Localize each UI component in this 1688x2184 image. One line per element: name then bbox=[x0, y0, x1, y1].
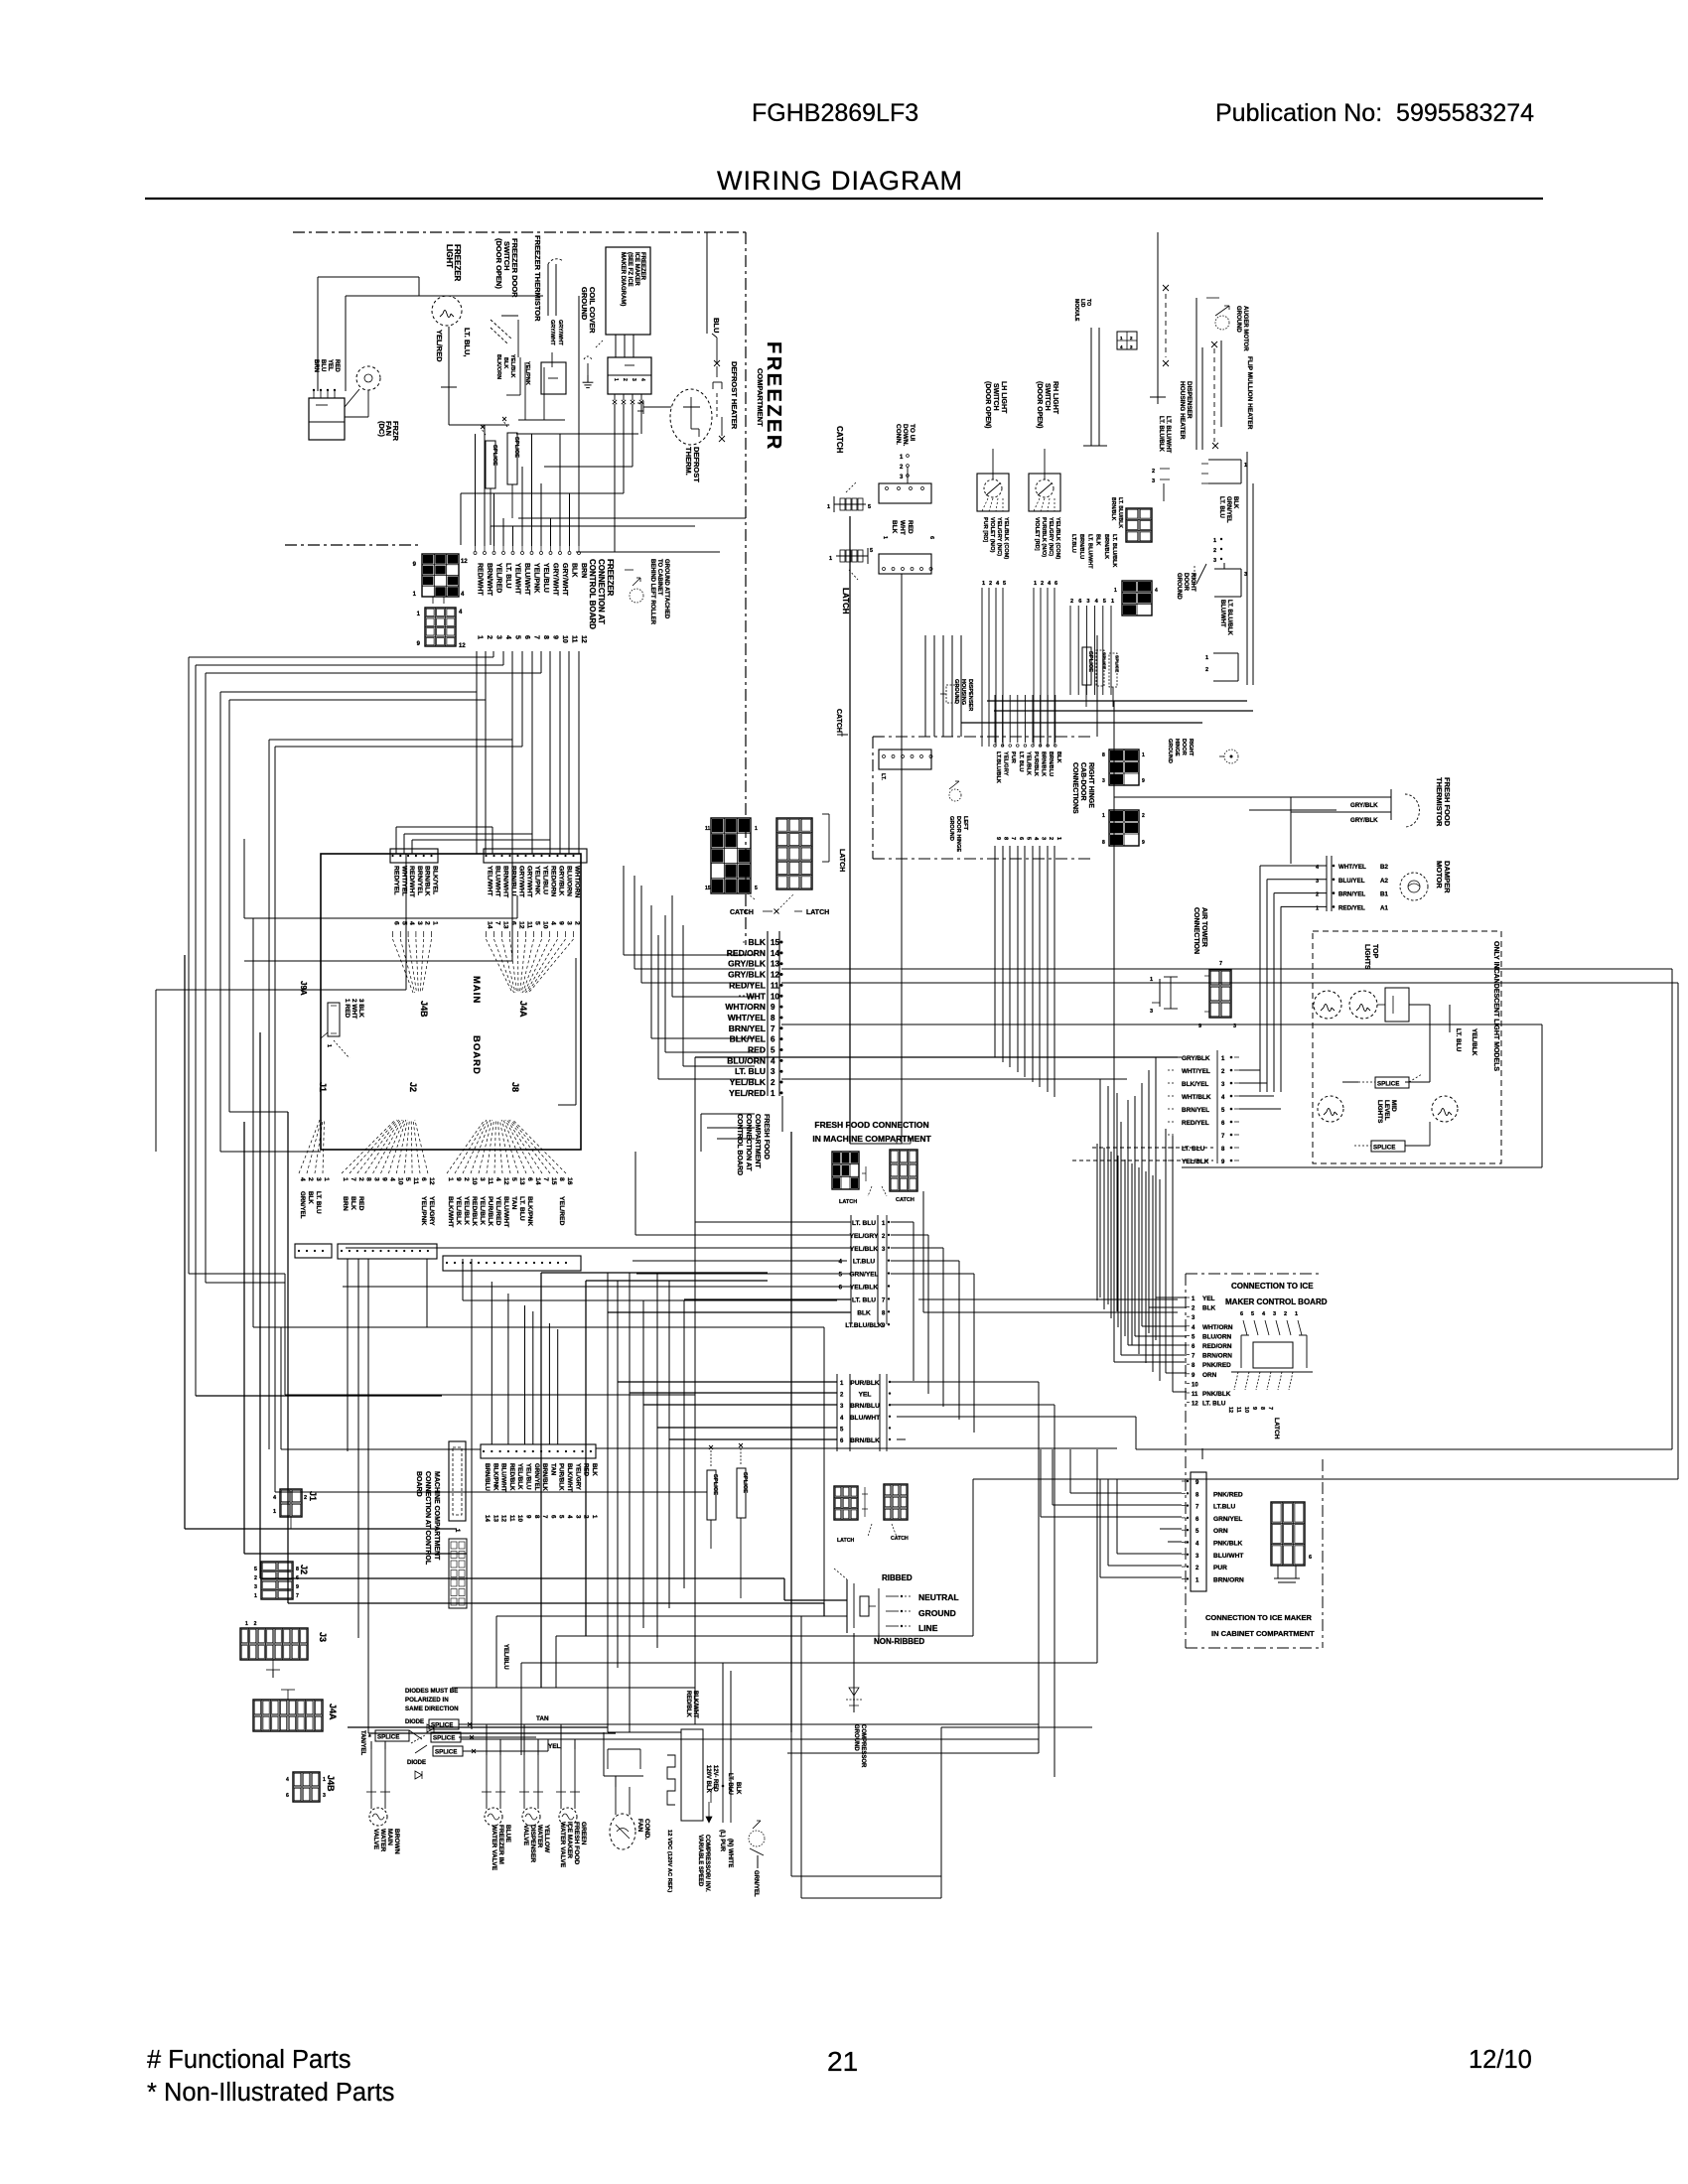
blue freezer im water valve coil bbox=[485, 1808, 502, 1826]
cabinet ground symbol bbox=[630, 589, 643, 603]
svg-text:DISPENSER: DISPENSER bbox=[1186, 381, 1193, 419]
svg-text:RIGHT: RIGHT bbox=[1188, 739, 1194, 756]
svg-text:6: 6 bbox=[1240, 1311, 1243, 1317]
svg-text:2: 2 bbox=[254, 1575, 257, 1581]
svg-text:BRN/BLU: BRN/BLU bbox=[1078, 534, 1084, 559]
svg-text:CONNECTIONS: CONNECTIONS bbox=[1071, 762, 1078, 814]
svg-text:13: 13 bbox=[502, 921, 509, 929]
wire trunk G bbox=[220, 1151, 321, 1153]
svg-text:TAN: TAN bbox=[510, 1196, 517, 1210]
svg-text:3: 3 bbox=[323, 1793, 326, 1799]
top light connector bbox=[1385, 988, 1409, 1022]
svg-text:J4A: J4A bbox=[328, 1704, 338, 1720]
svg-text:BLU/WHT: BLU/WHT bbox=[502, 1196, 509, 1228]
svg-text:YEL/BLK: YEL/BLK bbox=[479, 1196, 486, 1225]
svg-text:5: 5 bbox=[254, 1567, 257, 1572]
svg-text:COND.: COND. bbox=[643, 1819, 650, 1840]
svg-text:YEL/BLK: YEL/BLK bbox=[509, 354, 515, 378]
svg-text:RED/ORN: RED/ORN bbox=[727, 948, 766, 958]
svg-text:GRN/YEL: GRN/YEL bbox=[1225, 496, 1231, 523]
dispenser ground symbol bbox=[946, 685, 956, 703]
svg-text:YEL/BLK: YEL/BLK bbox=[850, 1246, 878, 1253]
svg-text:NEUTRAL: NEUTRAL bbox=[918, 1592, 959, 1602]
damper motor symbol bbox=[1400, 873, 1428, 900]
svg-text:J2: J2 bbox=[299, 1565, 309, 1574]
wire long mid h4 bbox=[442, 1394, 695, 1396]
ff low pins stubs bbox=[701, 1113, 755, 1115]
svg-text:BLK/WHT: BLK/WHT bbox=[447, 1196, 454, 1228]
cab-door box border bbox=[873, 736, 1093, 738]
svg-text:GROUND: GROUND bbox=[918, 1608, 956, 1618]
svg-text:1: 1 bbox=[254, 1593, 257, 1599]
svg-text:MID: MID bbox=[1390, 1100, 1397, 1112]
svg-text:120V BLK: 120V BLK bbox=[705, 1765, 711, 1794]
wire mid extra v bbox=[540, 1273, 542, 1688]
wire left h 1247 bbox=[196, 1395, 442, 1397]
ice maker cb feed wires bbox=[1156, 1297, 1187, 1298]
freezer compartment dash-dot border right bbox=[745, 232, 747, 945]
svg-text:10: 10 bbox=[561, 635, 568, 643]
svg-text:BRN/YEL: BRN/YEL bbox=[729, 1024, 766, 1033]
svg-text:11: 11 bbox=[508, 1515, 515, 1522]
svg-text:MAIN: MAIN bbox=[386, 1829, 393, 1845]
ice maker cabinet connector strip bbox=[1191, 1472, 1206, 1591]
svg-text:LATCH: LATCH bbox=[839, 1199, 857, 1205]
compressor bottom wires bbox=[791, 1875, 941, 1877]
svg-text:14: 14 bbox=[534, 1177, 541, 1185]
svg-text:BLK/YEL: BLK/YEL bbox=[432, 866, 439, 894]
svg-text:J4A: J4A bbox=[518, 1001, 528, 1018]
svg-text:LT. BLU: LT. BLU bbox=[1455, 1028, 1462, 1052]
ff connector left stub wires bbox=[624, 954, 755, 956]
wire bottom distribution bbox=[348, 1726, 608, 1728]
freezer thermistor symbol bbox=[547, 264, 549, 316]
valve feed bus bbox=[467, 1723, 1039, 1725]
svg-text:J3: J3 bbox=[318, 1632, 328, 1642]
svg-text:1: 1 bbox=[827, 504, 830, 510]
svg-text:LT. BLU: LT. BLU bbox=[727, 1773, 733, 1795]
svg-text:MAKER DIAGRAM): MAKER DIAGRAM) bbox=[620, 252, 626, 306]
svg-text:9: 9 bbox=[381, 1177, 388, 1181]
svg-text:BLU/ORN: BLU/ORN bbox=[566, 866, 573, 896]
svg-text:3: 3 bbox=[1273, 1311, 1276, 1317]
svg-text:1: 1 bbox=[829, 556, 832, 562]
freezer door switch symbol bbox=[491, 320, 512, 340]
svg-text:1: 1 bbox=[1192, 1297, 1196, 1302]
svg-text:12: 12 bbox=[1192, 1402, 1198, 1408]
svg-text:BLK: BLK bbox=[1202, 1305, 1216, 1312]
svg-text:LT. BLU: LT. BLU bbox=[504, 563, 511, 589]
wire v mid2 bbox=[922, 1191, 924, 1312]
svg-text:FREEZER: FREEZER bbox=[606, 559, 615, 597]
ff 9-wire block A bbox=[850, 1215, 852, 1324]
svg-text:RED/YEL: RED/YEL bbox=[393, 866, 400, 894]
svg-text:5: 5 bbox=[1003, 581, 1006, 587]
ice maker cb connector drawing bbox=[1253, 1342, 1293, 1368]
damper feed wires bbox=[1260, 865, 1327, 867]
ice maker connector bbox=[608, 357, 651, 394]
svg-text:SAME DIRECTION: SAME DIRECTION bbox=[405, 1706, 459, 1712]
svg-text:BRN/YEL: BRN/YEL bbox=[416, 866, 423, 895]
wire x788 stub bbox=[781, 1096, 783, 1132]
relay box bbox=[541, 362, 566, 394]
svg-text:WHT: WHT bbox=[899, 520, 906, 535]
switch fan dashes bbox=[982, 498, 988, 511]
svg-text:DOWN.: DOWN. bbox=[902, 424, 909, 447]
svg-text:LATCH: LATCH bbox=[841, 588, 850, 614]
bus wire 8 bbox=[244, 917, 517, 919]
svg-text:WHT/YEL: WHT/YEL bbox=[728, 1013, 766, 1023]
wire down right bundle bbox=[1096, 1144, 1098, 1300]
green fresh food ice maker valve coil bbox=[559, 1808, 577, 1826]
capacitor zigzag bbox=[667, 1755, 675, 1805]
splice in light box 2 bbox=[1371, 1141, 1405, 1152]
svg-text:1: 1 bbox=[1295, 1311, 1298, 1317]
svg-text:1: 1 bbox=[417, 612, 421, 617]
J1 grid bottom bbox=[280, 1489, 302, 1517]
svg-text:6: 6 bbox=[510, 921, 517, 925]
svg-text:BLK: BLK bbox=[891, 520, 898, 534]
main board outline bbox=[321, 854, 581, 1150]
wire mid extra h bbox=[541, 1272, 768, 1274]
svg-text:LATCH: LATCH bbox=[806, 909, 829, 916]
J4B grid bottom bbox=[293, 1772, 320, 1802]
svg-text:3: 3 bbox=[1213, 558, 1216, 564]
only incandescent light models dashed box bbox=[1313, 931, 1501, 1163]
fresh food connector rails bbox=[767, 931, 769, 1096]
svg-text:1: 1 bbox=[1221, 1056, 1225, 1062]
svg-text:(N) WHITE: (N) WHITE bbox=[727, 1839, 733, 1867]
svg-text:PNK/BLK: PNK/BLK bbox=[1202, 1391, 1231, 1398]
freezer fan motor bbox=[356, 366, 380, 390]
svg-text:BLK: BLK bbox=[350, 1196, 356, 1210]
svg-text:LATCH: LATCH bbox=[1273, 1418, 1280, 1439]
defrost therm lead connector bbox=[643, 406, 671, 408]
svg-text:GRY/WHT: GRY/WHT bbox=[526, 866, 533, 898]
svg-text:4: 4 bbox=[566, 1515, 573, 1519]
svg-text:PUR/BLK: PUR/BLK bbox=[850, 1380, 880, 1387]
svg-text:LT.BLU/BLK: LT.BLU/BLK bbox=[845, 1322, 883, 1329]
svg-text:2: 2 bbox=[840, 1393, 844, 1399]
svg-text:(DC): (DC) bbox=[377, 421, 386, 437]
svg-text:LATCH: LATCH bbox=[837, 1538, 854, 1544]
svg-text:HINGE: HINGE bbox=[1174, 739, 1180, 756]
svg-text:1: 1 bbox=[323, 1777, 326, 1783]
svg-text:4: 4 bbox=[408, 921, 415, 925]
svg-text:(DOOR OPEN): (DOOR OPEN) bbox=[984, 381, 991, 428]
svg-text:5: 5 bbox=[1251, 1311, 1254, 1317]
svg-text:8: 8 bbox=[542, 635, 549, 639]
svg-text:J1: J1 bbox=[318, 1082, 328, 1092]
bus wire 7 bbox=[275, 746, 522, 748]
wire bundle cabdoor top bbox=[924, 635, 926, 737]
svg-text:VIOLET (N/O): VIOLET (N/O) bbox=[989, 517, 995, 553]
svg-text:4: 4 bbox=[1033, 837, 1039, 841]
svg-text:IN MACHINE COMPARTMENT: IN MACHINE COMPARTMENT bbox=[812, 1134, 931, 1144]
misc right verticals bbox=[1201, 1448, 1203, 1459]
svg-text:SPLICE: SPLICE bbox=[492, 445, 497, 466]
svg-text:TAN: TAN bbox=[549, 1463, 556, 1476]
ice maker wires to connector bbox=[615, 335, 617, 357]
svg-text:GRY/BLK: GRY/BLK bbox=[728, 959, 767, 969]
svg-text:12: 12 bbox=[500, 1515, 507, 1522]
svg-text:2: 2 bbox=[1048, 837, 1054, 840]
svg-text:12/10: 12/10 bbox=[1469, 2046, 1532, 2074]
J1 connector block bbox=[295, 1244, 332, 1258]
svg-text:Publication No: 5995583274: Publication No: 5995583274 bbox=[1215, 99, 1534, 127]
ui long vertical 2 bbox=[849, 516, 851, 1144]
svg-text:DIODE: DIODE bbox=[407, 1760, 426, 1766]
svg-text:YEL/GRY (N/C): YEL/GRY (N/C) bbox=[1048, 517, 1054, 556]
svg-text:BLK/PNK: BLK/PNK bbox=[526, 1196, 533, 1226]
svg-text:YEL/BLK: YEL/BLK bbox=[455, 1196, 462, 1225]
svg-text:FREEZER IM: FREEZER IM bbox=[497, 1825, 504, 1864]
svg-text:BRN: BRN bbox=[342, 1196, 349, 1211]
svg-text:LATCH: LATCH bbox=[838, 849, 845, 872]
air tower dashes bbox=[1092, 1147, 1213, 1149]
svg-text:1: 1 bbox=[882, 536, 888, 539]
svg-text:3: 3 bbox=[900, 475, 904, 480]
svg-text:BLK: BLK bbox=[1095, 534, 1101, 546]
defrost thermostat bbox=[670, 389, 712, 445]
wire left margin long v3 bbox=[259, 1032, 261, 1578]
wire bundle freezer bottom bbox=[516, 433, 638, 435]
wire right v1 bbox=[1671, 969, 1673, 1449]
svg-text:RED/ORN: RED/ORN bbox=[550, 866, 557, 896]
svg-text:9: 9 bbox=[417, 641, 421, 647]
svg-text:5: 5 bbox=[1103, 599, 1106, 605]
ice maker cabinet grid bbox=[1271, 1502, 1305, 1566]
freezer light bulb bbox=[432, 296, 462, 326]
svg-text:3: 3 bbox=[1196, 1554, 1199, 1560]
wire ff block feeds bbox=[634, 1152, 636, 1235]
svg-text:10: 10 bbox=[542, 921, 549, 929]
svg-text:4: 4 bbox=[1095, 599, 1099, 605]
svg-text:SPLICE: SPLICE bbox=[377, 1733, 399, 1740]
wire h 1675 bbox=[521, 1662, 1097, 1664]
svg-text:LIGHT: LIGHT bbox=[445, 244, 454, 268]
svg-text:4: 4 bbox=[996, 581, 1000, 587]
svg-text:* Non-Illustrated Parts: * Non-Illustrated Parts bbox=[147, 2079, 394, 2107]
dispenser housing heater element bbox=[1157, 274, 1159, 397]
svg-text:VIOLET [RD]: VIOLET [RD] bbox=[1034, 517, 1040, 551]
svg-text:TO CABINET: TO CABINET bbox=[656, 559, 662, 596]
svg-text:7: 7 bbox=[1267, 1407, 1273, 1410]
svg-text:YEL/PNK: YEL/PNK bbox=[420, 1196, 427, 1226]
svg-text:9: 9 bbox=[995, 837, 1001, 840]
svg-text:(SEE FZ ICE: (SEE FZ ICE bbox=[627, 252, 633, 287]
svg-text:PNK/RED: PNK/RED bbox=[1213, 1491, 1243, 1498]
svg-text:SWITCH: SWITCH bbox=[992, 383, 999, 411]
svg-text:BLU/WHT: BLU/WHT bbox=[1213, 1553, 1243, 1560]
svg-text:6: 6 bbox=[1192, 1344, 1196, 1350]
grid connector 6cell bbox=[1126, 508, 1152, 542]
svg-text:8: 8 bbox=[558, 1177, 565, 1181]
svg-text:YEL/BLK: YEL/BLK bbox=[1471, 1028, 1477, 1056]
svg-text:8: 8 bbox=[1196, 1492, 1199, 1498]
cond fan wires bbox=[615, 1787, 617, 1815]
wire trunk E bbox=[195, 1395, 197, 1397]
svg-text:SPLICE: SPLICE bbox=[433, 1734, 455, 1741]
svg-text:WHT/YEL: WHT/YEL bbox=[1182, 1068, 1210, 1075]
svg-text:2: 2 bbox=[1070, 599, 1073, 605]
svg-text:GRN/YEL: GRN/YEL bbox=[533, 1463, 540, 1491]
power cord bbox=[846, 1579, 848, 1633]
svg-text:1: 1 bbox=[1213, 538, 1216, 544]
freezer blu wire bbox=[706, 232, 708, 334]
wire trunk right top bbox=[1096, 635, 1098, 737]
cond fan feed bbox=[603, 1732, 605, 1776]
ff thermistor wires bbox=[1249, 809, 1336, 811]
wire trunk B bbox=[206, 1282, 285, 1284]
svg-text:LT.: LT. bbox=[880, 773, 886, 780]
catch connector symbol bbox=[834, 503, 866, 505]
svg-text:1: 1 bbox=[1142, 752, 1145, 758]
wire ui bottom bbox=[850, 1143, 902, 1145]
diode symbol 1 bbox=[427, 1724, 434, 1732]
splice row 2 bbox=[431, 1732, 461, 1742]
splice main bbox=[375, 1730, 409, 1741]
left hinge ground symbol bbox=[949, 789, 961, 801]
wire h 1648 bbox=[556, 1635, 973, 1637]
svg-text:1: 1 bbox=[1034, 581, 1037, 587]
wire icb feeds v bbox=[1099, 1079, 1101, 1297]
splice 2 bbox=[507, 433, 517, 484]
svg-text:3: 3 bbox=[1102, 778, 1105, 784]
svg-text:LT. BLU,: LT. BLU, bbox=[463, 328, 472, 356]
ice maker pin wires bbox=[614, 404, 616, 552]
svg-text:6: 6 bbox=[771, 1035, 775, 1044]
wire left margin long v2 bbox=[243, 1122, 245, 1554]
svg-text:1: 1 bbox=[1102, 813, 1105, 819]
svg-text:COMPARTMENT: COMPARTMENT bbox=[754, 1114, 761, 1168]
top light bulb 1 bbox=[1314, 991, 1341, 1019]
power cord ground lead bbox=[853, 1633, 855, 1678]
svg-text:5: 5 bbox=[755, 886, 758, 891]
machine 12-pin connector drawing bbox=[449, 1539, 467, 1608]
j8 vertical extensions bbox=[629, 1688, 631, 1732]
wire left margin long v1 bbox=[184, 955, 186, 1529]
svg-text:1: 1 bbox=[245, 1621, 248, 1627]
svg-text:YEL/PNK: YEL/PNK bbox=[533, 563, 540, 593]
splice row 1 bbox=[429, 1719, 459, 1729]
svg-text:5: 5 bbox=[404, 1177, 411, 1181]
svg-text:GROUND: GROUND bbox=[1167, 739, 1173, 763]
svg-text:DEFROST HEATER: DEFROST HEATER bbox=[730, 361, 739, 430]
svg-text:7: 7 bbox=[1192, 1354, 1196, 1360]
svg-text:BRN/BLK: BRN/BLK bbox=[541, 1463, 548, 1491]
svg-text:4: 4 bbox=[639, 378, 645, 381]
mullion heater element bbox=[1211, 341, 1217, 347]
svg-text:BLU: BLU bbox=[320, 359, 326, 371]
svg-text:LT. BLU/BLK: LT. BLU/BLK bbox=[1158, 416, 1164, 453]
svg-text:RIBBED: RIBBED bbox=[882, 1573, 913, 1582]
svg-text:WHT/ORN: WHT/ORN bbox=[725, 1002, 766, 1012]
compressor ground symbol 2 bbox=[853, 1678, 855, 1688]
svg-text:2: 2 bbox=[882, 1234, 886, 1240]
svg-text:RED/YEL: RED/YEL bbox=[729, 980, 766, 990]
svg-text:RED/ORN: RED/ORN bbox=[1202, 1343, 1232, 1350]
svg-text:4: 4 bbox=[550, 921, 557, 925]
svg-text:12: 12 bbox=[518, 921, 525, 929]
wire right v3 bbox=[1541, 1024, 1543, 1167]
cabinet feed verticals bbox=[1040, 1449, 1042, 1517]
svg-text:CATCH: CATCH bbox=[835, 426, 844, 454]
svg-text:7: 7 bbox=[494, 921, 501, 925]
svg-text:CONNECTION TO ICE MAKER: CONNECTION TO ICE MAKER bbox=[1205, 1613, 1313, 1622]
wire blockB feeds bbox=[618, 1381, 837, 1383]
svg-text:BLU/ORN: BLU/ORN bbox=[1202, 1333, 1231, 1340]
wire x797 long bbox=[790, 1132, 792, 1732]
svg-text:CONTROL BOARD: CONTROL BOARD bbox=[588, 559, 597, 629]
compressor ground lug bbox=[749, 1831, 765, 1846]
svg-text:SWITCH: SWITCH bbox=[1044, 383, 1051, 411]
svg-text:GROUND: GROUND bbox=[580, 287, 589, 321]
svg-text:1: 1 bbox=[771, 1089, 775, 1098]
svg-text:VALVE: VALVE bbox=[522, 1825, 529, 1846]
J2 dashed fan bbox=[342, 1120, 395, 1173]
splice pair bbox=[707, 1470, 716, 1520]
svg-text:MAIN: MAIN bbox=[471, 976, 482, 1004]
bus wire 4 bbox=[220, 691, 477, 693]
svg-text:5: 5 bbox=[1196, 1529, 1199, 1535]
svg-text:PUR/BLK: PUR/BLK bbox=[487, 1196, 493, 1226]
freezer light wire down bbox=[448, 327, 450, 387]
svg-text:TAN/YEL: TAN/YEL bbox=[359, 1730, 365, 1756]
svg-text:12: 12 bbox=[502, 1177, 509, 1185]
wire v mid bbox=[823, 1327, 825, 1616]
svg-text:4: 4 bbox=[273, 1495, 277, 1501]
svg-text:1: 1 bbox=[1150, 977, 1153, 983]
svg-text:ICE MAKER: ICE MAKER bbox=[633, 252, 639, 286]
svg-text:TAN: TAN bbox=[536, 1715, 549, 1722]
svg-text:BLK/YEL: BLK/YEL bbox=[1182, 1081, 1208, 1088]
svg-text:PUR [RD]: PUR [RD] bbox=[982, 517, 988, 542]
svg-text:1: 1 bbox=[591, 1515, 598, 1519]
svg-text:1: 1 bbox=[1196, 1577, 1199, 1583]
svg-text:WATER: WATER bbox=[536, 1825, 543, 1848]
svg-text:GRY/BLK: GRY/BLK bbox=[558, 866, 565, 895]
svg-text:BRN/BLK: BRN/BLK bbox=[424, 866, 431, 896]
svg-text:9: 9 bbox=[525, 1515, 532, 1519]
wire main h1 bbox=[281, 1448, 481, 1450]
svg-text:CAB-DOOR: CAB-DOOR bbox=[1079, 762, 1086, 801]
svg-text:LT. BLU/WHT: LT. BLU/WHT bbox=[1165, 416, 1171, 454]
svg-text:1: 1 bbox=[755, 826, 758, 832]
freezer compartment dash-dot border top bbox=[293, 231, 746, 233]
svg-text:3: 3 bbox=[254, 1584, 257, 1590]
svg-text:COMPRESSOR/ INV.: COMPRESSOR/ INV. bbox=[704, 1835, 710, 1892]
svg-text:8: 8 bbox=[1102, 840, 1105, 846]
damper stub wires bbox=[1259, 866, 1261, 1092]
svg-text:3: 3 bbox=[1041, 837, 1047, 840]
wire j1 down2 bbox=[357, 1259, 359, 1638]
svg-text:8: 8 bbox=[1259, 1407, 1265, 1410]
svg-text:1: 1 bbox=[477, 635, 484, 639]
diode fan lines bbox=[409, 1730, 422, 1739]
svg-text:2: 2 bbox=[622, 378, 628, 381]
svg-text:WATER VALVE: WATER VALVE bbox=[491, 1825, 497, 1871]
svg-text:14: 14 bbox=[487, 921, 493, 929]
svg-text:RED/BLK: RED/BLK bbox=[471, 1196, 478, 1226]
svg-text:4: 4 bbox=[494, 1177, 501, 1181]
svg-text:11: 11 bbox=[1192, 1392, 1198, 1398]
svg-text:6: 6 bbox=[420, 1177, 427, 1181]
svg-text:BRN/BLU: BRN/BLU bbox=[510, 866, 517, 896]
svg-text:LT.BLU/BLK: LT.BLU/BLK bbox=[995, 751, 1001, 783]
svg-text:3 BLK: 3 BLK bbox=[357, 999, 364, 1018]
top light bulb 2 bbox=[1349, 991, 1377, 1019]
